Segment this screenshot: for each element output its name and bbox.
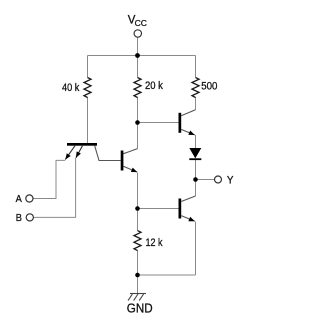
input terminal B [26,214,33,221]
Q2 base bar [121,151,124,171]
svg-text:Y: Y [227,175,234,187]
junction node Y [193,177,198,182]
Q3 base bar [179,113,182,133]
junction node C2 [135,120,140,125]
Q2 emitter [123,166,137,172]
transistor Q2 phase splitter [121,149,138,173]
Vcc terminal circle [134,30,141,37]
wire Vcc terminal to rail [137,37,139,55]
junction Vcc rail [135,53,140,58]
Q3 collector [181,110,195,116]
diode cathode bar [189,158,201,160]
transistor Q3 output pull-up [179,110,196,135]
wire Q3 emitter to diode anode [195,135,197,148]
diode anode triangle [189,148,201,158]
wire 20k resistor to node C2 / Q2 collector [137,97,139,149]
wire rail to 20k resistor [137,56,139,78]
wire ground node to ground symbol [137,275,139,294]
resistor 500 [192,78,199,98]
wire Q2 emitter to 12k resistor [137,173,139,231]
wire input B to emitter 2 [33,158,75,217]
wire node Y to Q4 collector [195,180,197,197]
wire Vcc rail [88,55,196,57]
Q1 base bar [67,143,97,146]
transistor Q1 multi-emitter input [65,143,97,160]
Q1 emitter 1 [65,146,75,160]
junction node E2 [135,206,140,211]
diode D1 [189,148,201,159]
resistor 40k [84,78,91,98]
junction ground node [135,273,140,278]
resistor 12k [134,231,141,251]
wire node Y to output terminal [196,179,215,181]
transistor Q4 output pull-down [179,196,196,221]
svg-text:B: B [16,212,22,224]
svg-text:20 k: 20 k [145,80,163,92]
wire 500 resistor to Q3 collector [195,97,197,110]
wire node C2 to Q3 base [138,122,179,124]
wire Q4 emitter to ground node [195,222,197,275]
ground symbol [128,294,146,301]
wire node E2 to Q4 base [138,208,179,210]
svg-text:GND: GND [127,301,153,316]
wire 40k resistor to Q1 base [87,97,89,144]
Q4 base bar [179,199,182,219]
wire rail to 500 resistor [195,56,197,78]
resistor 20k [134,78,141,98]
Q4 collector [181,196,195,202]
wire rail to 40k resistor [87,56,89,78]
wire input A to emitter 1 [33,160,65,198]
input terminal A [26,195,33,202]
svg-text:A: A [16,193,22,205]
svg-text:500: 500 [201,81,217,93]
wire diode cathode to node Y [195,160,197,180]
output terminal Y [215,176,222,183]
wire bottom return [138,274,196,276]
wire Q1 collector to Q2 base [95,146,121,161]
svg-text:CC: CC [135,18,147,28]
Q1 emitter 2 [76,146,83,158]
svg-text:12 k: 12 k [146,237,163,249]
Q4 emitter [181,216,195,222]
Q2 collector [123,149,137,154]
wire 12k resistor to ground node [137,250,139,275]
Q3 emitter [181,129,195,135]
svg-text:40 k: 40 k [62,82,80,94]
